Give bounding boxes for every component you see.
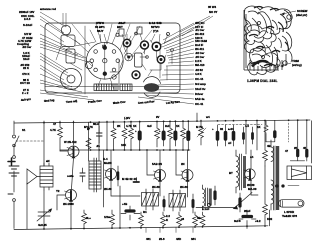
svg-text:w4: w4 [205,115,210,119]
wire right column [264,121,266,204]
svg-text:H-4: H-4 [103,157,108,161]
svg-text:4u0.05: 4u0.05 [38,223,47,227]
svg-text:45: 45 [303,146,307,150]
electrolytic C12b [251,127,254,144]
svg-text:.02 Cer: .02 Cer [22,45,32,49]
svg-text:2N-3C: 2N-3C [180,185,188,189]
transistor T6 [244,169,255,181]
svg-text:a-04: a-04 [228,127,234,131]
electrolytic C15 [239,210,256,229]
driver transformer T4 (striped) [120,84,132,91]
svg-text:4.8 K: 4.8 K [195,72,202,76]
wire T3 [111,150,140,196]
electrolytic can E [132,71,140,79]
schematic small labels [22,115,307,241]
svg-text:antenna rod: antenna rod [40,7,56,11]
svg-text:oo6e: oo6e [67,174,74,178]
resistor R4 [122,121,127,150]
svg-text:2N: 2N [181,162,185,166]
speaker SP2 [287,166,312,180]
svg-text:3rd amp: 3rd amp [195,82,206,86]
svg-text:80JJ: 80JJ [93,122,100,126]
wire T2 base [57,195,65,210]
svg-text:22 K: 22 K [23,66,29,70]
switch link dashed [16,140,44,142]
svg-text:2-5.5: 2-5.5 [24,17,31,21]
svg-text:OUT 20: OUT 20 [20,81,30,85]
IF transformer IFT2 [142,189,159,210]
svg-text:3#4: 3#4 [191,237,196,241]
wire T1 emitter [72,157,74,189]
electrolytic C11 [232,125,236,146]
electrolytic C13 [238,193,241,212]
trimmer C5 [86,62,93,69]
svg-text:3B: 3B [197,216,201,220]
svg-text:(Y)4: (Y)4 [153,29,159,33]
dial string label [292,59,302,67]
svg-text:1K: 1K [257,125,261,129]
electrolytic C7 [173,121,177,146]
wire left rail [13,121,15,229]
svg-text:BT: BT [229,171,233,175]
right label leader lines [138,23,194,104]
electrolytic C-right [273,132,276,137]
svg-text:5AB 2N: 5AB 2N [152,162,162,166]
svg-text:#2-6: #2-6 [159,237,165,241]
bottom slanted labels under chassis [21,97,181,105]
svg-text:W 2N-412: W 2N-412 [64,140,77,144]
svg-text:1/2w: 1/2w [104,215,111,219]
electrolytic C-det [213,186,216,205]
IF can D [157,56,164,63]
svg-text:6M-413: 6M-413 [195,63,205,67]
svg-text:Tw&2R 4P3: Tw&2R 4P3 [282,214,297,218]
svg-text:S-10uF: S-10uF [23,23,33,27]
mounting dot c [167,33,170,36]
svg-text:2N-1380: 2N-1380 [63,202,74,206]
svg-text:+9.2: +9.2 [255,219,261,223]
mounting dot f [112,75,116,79]
electrolytic C10 [224,125,228,146]
svg-text:M 4B 02 4C: M 4B 02 4C [122,177,137,181]
resistor R10 [139,212,144,229]
svg-text:4.7K: 4.7K [50,128,56,132]
wire detector out [196,207,236,209]
IF transformer IFT1 [89,122,102,192]
wire T4 [147,150,160,196]
socket F [125,53,133,61]
diode D3 [296,143,299,161]
svg-text:2 + 2: 2 + 2 [22,91,29,95]
wire T5 [176,150,188,197]
switch S1 [13,135,20,147]
svg-text:0uF8: 0uF8 [234,219,241,223]
transistor T4 [154,170,166,182]
wire mid rail [60,149,190,151]
svg-text:1.36PM DIAL 233L: 1.36PM DIAL 233L [247,79,278,83]
transistor T3 [105,169,117,181]
speaker terminal dots [276,185,299,188]
partition line 2 [110,60,119,84]
oscillator transformer L4 [203,185,212,210]
wire label ticks [146,227,193,232]
svg-text:10uF: 10uF [23,57,30,61]
earphone jack J1 [279,200,305,207]
internal wiring [127,47,161,70]
svg-text:20uF: 20uF [244,209,251,213]
top label leader lines [63,13,213,44]
svg-text:4B: 4B [267,144,271,148]
diode D1 [117,166,120,186]
wire riser [196,113,198,121]
leader lines crossing circle [72,24,152,60]
mounting dot e [146,56,149,59]
diode D4 [305,143,308,161]
resistor R-right [264,121,268,142]
resistor R15 [263,145,268,166]
electrolytic C4 [138,121,142,150]
resistor R8 [181,121,186,150]
svg-text:(string): (string) [292,63,302,67]
svg-text:4.5: 4.5 [245,124,249,128]
capacitor C2 [80,168,85,182]
resistor R5 [129,121,134,150]
transistor T2 [65,190,77,202]
svg-text:NO 3Y: NO 3Y [209,10,218,14]
electrolytic C14 [121,206,140,220]
resistor R2 [86,138,91,149]
svg-text:2K: 2K [117,124,121,128]
terminal dot [207,203,210,206]
svg-text:2N-30: 2N-30 [104,187,112,191]
transistor T1 [67,146,79,158]
wire speaker feed [290,160,304,162]
svg-text:10K: 10K [121,143,126,147]
electrolytic C-af1 [163,196,166,211]
resistor R6 [155,121,160,147]
svg-text:02: 02 [220,127,224,131]
svg-text:x8: x8 [181,217,185,221]
mounting dot a [116,33,119,36]
svg-text:47: 47 [285,149,289,153]
dial pointer label [296,9,308,17]
svg-text:35 W4: 35 W4 [208,5,217,9]
tuning capacitor C1 [37,209,52,221]
svg-text:25: 25 [294,146,298,150]
svg-text:(-)9V: (-)9V [124,116,130,120]
mounting dot d [171,49,174,52]
wire T2 emitter [70,201,72,229]
svg-text:4#D: 4#D [176,237,181,241]
resistor R7 [168,121,173,150]
tuning capacitor TC1 (large circle with socket holes) [86,42,123,79]
svg-text:4uF: 4uF [147,124,152,128]
speaker SP1 [61,69,82,90]
IF can B [141,41,149,49]
wire top bus [14,120,310,123]
wire det column [119,186,121,228]
svg-text:aN: aN [46,159,50,163]
chassis outline [45,23,180,93]
svg-text:3L+: 3L+ [86,216,91,220]
IF can A [123,39,130,46]
svg-text:2uF: 2uF [165,124,170,128]
resistor R-av [197,120,206,145]
bracket rects [119,29,124,36]
ground G1 [134,178,140,183]
svg-text:47: 47 [53,122,57,126]
oscillator coil L2 [61,25,70,34]
speaker magnet (dark) [144,77,161,98]
resistor R14 [82,210,87,229]
dial cord drawing (top right) [244,6,292,75]
svg-text:1K: 1K [133,124,137,128]
wire aux column [103,150,105,207]
wire T6 [251,150,258,195]
svg-text:M': M' [87,127,90,131]
wire center column [106,121,108,150]
electrolytic C-af2 [192,194,195,213]
wire bottom bus [14,226,268,230]
svg-text:K92: K92 [267,217,273,221]
svg-text:Driver: Driver [195,92,204,96]
wire dashed agc right [288,123,290,142]
electrolytic C6 [162,121,166,146]
svg-text:u4: u4 [250,155,254,159]
wire T1 collector [73,121,75,145]
svg-text:Mu2N: Mu2N [104,161,112,165]
svg-text:S1: S1 [22,128,26,132]
right label column texts [195,21,208,106]
svg-text:2N-30: 2N-30 [152,185,160,189]
electrolytic C8 [186,121,190,150]
svg-text:4.7K: 4.7K [126,124,132,128]
transistor T5 [181,170,193,182]
wire right verticals [298,121,312,163]
chassis fold line [45,85,180,87]
resistor R11 [161,212,166,229]
top labels [40,5,218,33]
svg-text:+4B: +4B [122,202,127,206]
svg-text:OC-44: OC-44 [195,77,204,81]
svg-text:(dial ptr): (dial ptr) [296,13,307,17]
resistor R9 [110,210,115,229]
wire R1 to T1 base [60,150,68,152]
resistor R1 [58,121,63,151]
volume control VR1 [135,53,143,67]
resistor R13b [200,212,205,227]
IF can C [152,42,161,51]
resistor R3 [111,121,116,150]
mounting dot b [135,32,138,35]
electrolytic C12 [242,127,245,144]
svg-text:OC-41: OC-41 [195,102,204,106]
svg-text:9V: 9V [156,115,160,119]
battery B1 [8,156,19,202]
wire cone drop [26,183,28,229]
svg-text:R4: R4 [143,210,147,214]
svg-text:481: 481 [146,237,151,241]
IF transformer IFT3 [169,190,186,211]
svg-text:BKT: BKT [117,25,123,29]
svg-text:M 7B: M 7B [196,125,203,129]
wire antenna branch [43,121,45,229]
svg-text:Y2: Y2 [56,189,60,193]
left label column texts [17,10,35,95]
left label leader lines [40,12,94,100]
svg-text:uF: uF [228,141,232,145]
svg-text:u.1uF: u.1uF [202,207,210,211]
arrows to dial drawing [281,11,297,67]
capacitor C3 [97,126,103,143]
svg-text:6AB 4a: 6AB 4a [195,97,205,101]
svg-text:K: K [166,218,168,222]
bracket [66,49,75,63]
interstage transformer T7 [236,150,246,193]
resistor R12 [177,212,182,227]
ferrite antenna L1 [27,163,53,190]
internal hookup wires [56,30,172,90]
output transformer T5 (striped) [94,84,118,91]
volume wiper arrow [234,193,253,210]
svg-text:470 K: 470 K [22,72,29,76]
svg-text:58JY: 58JY [97,29,104,33]
electrolytic C9 [216,125,220,146]
resistor R13 [193,212,198,227]
svg-text:MA-30: MA-30 [248,187,257,191]
wire agc dashed [218,124,262,126]
chassis partition [84,26,86,94]
svg-text:10uF 6v: 10uF 6v [195,87,206,91]
resistor R16 [263,204,268,226]
wire risers right [246,120,275,154]
output transformer T8 [270,140,280,226]
IF transformer can T2 [61,35,75,47]
svg-text:1K: 1K [176,124,180,128]
svg-text:.01: .01 [96,144,100,148]
